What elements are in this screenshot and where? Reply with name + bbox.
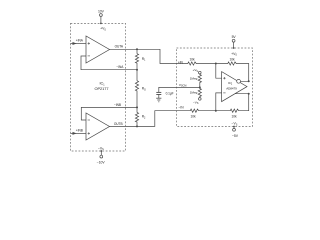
node VOCM junction xyxy=(199,86,201,88)
supply terminal +VS2 (5V) xyxy=(232,39,235,49)
svg-text:5V: 5V xyxy=(232,35,237,39)
resistor 10k top-right (feedback) xyxy=(227,62,237,65)
svg-text:10V: 10V xyxy=(98,9,105,13)
wire OUTB to right block xyxy=(110,111,190,127)
svg-text:+VS: +VS xyxy=(231,52,237,57)
node OUTA ladder junction xyxy=(136,48,138,50)
wire +INA input xyxy=(71,43,87,45)
input arrow A xyxy=(73,42,77,45)
svg-text:−VS: −VS xyxy=(193,100,199,105)
svg-text:R2: R2 xyxy=(142,115,146,120)
svg-text:OUTB: OUTB xyxy=(114,122,123,126)
wire VOCM from cap to divider node xyxy=(159,87,200,92)
resistor 1Meg upper xyxy=(198,74,201,88)
svg-text:−VS: −VS xyxy=(232,122,238,127)
node top feedback junction xyxy=(248,80,250,82)
op-amp B triangle xyxy=(86,113,110,140)
node A junction (-INA) xyxy=(136,69,138,71)
svg-text:10k: 10k xyxy=(190,114,196,118)
svg-text:+INB: +INB xyxy=(76,129,83,133)
svg-text:1Meg: 1Meg xyxy=(190,77,198,81)
node top row junction xyxy=(215,63,217,65)
svg-text:+VS: +VS xyxy=(193,68,199,73)
resistor 10k bottom-left xyxy=(190,109,200,112)
node bottom row junction xyxy=(215,110,217,112)
svg-text:+INA: +INA xyxy=(76,39,84,43)
wire feedback A (-INA loop) xyxy=(81,56,137,70)
IC2 plus marker xyxy=(223,77,225,79)
wire top row mid xyxy=(197,63,227,65)
node bottom feedback junction xyxy=(248,93,250,95)
svg-text:−10V: −10V xyxy=(97,161,106,165)
IC2 minus marker xyxy=(223,92,225,94)
svg-text:0.1µF: 0.1µF xyxy=(166,92,174,96)
wire +INB input xyxy=(71,132,87,134)
op-amp B plus marker xyxy=(88,132,90,134)
op-amp B minus marker xyxy=(88,119,90,121)
svg-text:+VS: +VS xyxy=(100,27,106,32)
wire ladder top segment xyxy=(136,49,138,53)
op-amp A plus marker xyxy=(88,42,90,44)
svg-text:−INB: −INB xyxy=(114,103,121,107)
wire bottom row mid xyxy=(200,110,230,112)
svg-text:OP2177: OP2177 xyxy=(95,86,109,91)
op-amp A triangle xyxy=(86,36,110,63)
resistor 10k top-left xyxy=(187,62,197,65)
wire feedback B (-INB loop) xyxy=(81,107,137,120)
svg-text:−5V: −5V xyxy=(232,134,239,138)
input arrow B xyxy=(73,132,77,135)
svg-text:RG: RG xyxy=(142,87,146,92)
op-amp A minus marker xyxy=(88,55,90,57)
node OUTB ladder junction xyxy=(136,125,138,127)
node B junction (-INB) xyxy=(136,106,138,108)
wire ladder mid segment xyxy=(136,70,138,81)
resistor R2 (ladder) xyxy=(135,113,138,127)
svg-text:10k: 10k xyxy=(231,114,237,118)
svg-text:10k: 10k xyxy=(229,58,235,62)
svg-text:−INA: −INA xyxy=(116,65,124,69)
resistor R1 (ladder) xyxy=(135,54,138,70)
svg-text:IC2: IC2 xyxy=(228,81,233,86)
IC1 package dashed box xyxy=(71,23,126,151)
svg-text:10k: 10k xyxy=(189,58,195,62)
svg-text:R1: R1 xyxy=(142,57,146,62)
svg-text:+IN: +IN xyxy=(178,60,184,64)
resistor 10k bottom-right (feedback) xyxy=(230,109,240,112)
resistor 1Meg lower xyxy=(198,87,201,97)
difference amp IC2 triangle xyxy=(222,72,247,102)
wire +input vertical xyxy=(216,64,222,79)
svg-text:−IN: −IN xyxy=(179,106,185,110)
wire bottom feedback up to stub xyxy=(235,94,249,111)
wire -input vertical xyxy=(216,93,222,111)
wire OUTA from apex to ladder and step down xyxy=(110,49,188,63)
svg-text:OUTA: OUTA xyxy=(115,44,124,48)
svg-text:−VS: −VS xyxy=(98,146,104,151)
svg-text:1Meg: 1Meg xyxy=(190,91,198,95)
divider terminal -VS circle xyxy=(199,98,202,101)
feedback bubble on top slope xyxy=(237,79,241,83)
resistor RG (ladder) xyxy=(135,81,138,108)
capacitor C1 0.1uF xyxy=(156,92,161,98)
svg-text:AD8479: AD8479 xyxy=(226,87,237,91)
wire top feedback down to bubble xyxy=(237,64,249,82)
supply terminal -VS2 (-5V) xyxy=(233,126,236,132)
ground xyxy=(156,98,161,102)
wire ladder lower segment xyxy=(136,107,138,112)
supply terminal +VS1 (10V) xyxy=(100,14,103,25)
IC2 package dashed box xyxy=(177,48,253,127)
supply terminal -VS1 (-10V) xyxy=(100,150,103,158)
svg-text:VOCM: VOCM xyxy=(179,83,187,88)
divider terminal +VS circle xyxy=(199,71,202,74)
